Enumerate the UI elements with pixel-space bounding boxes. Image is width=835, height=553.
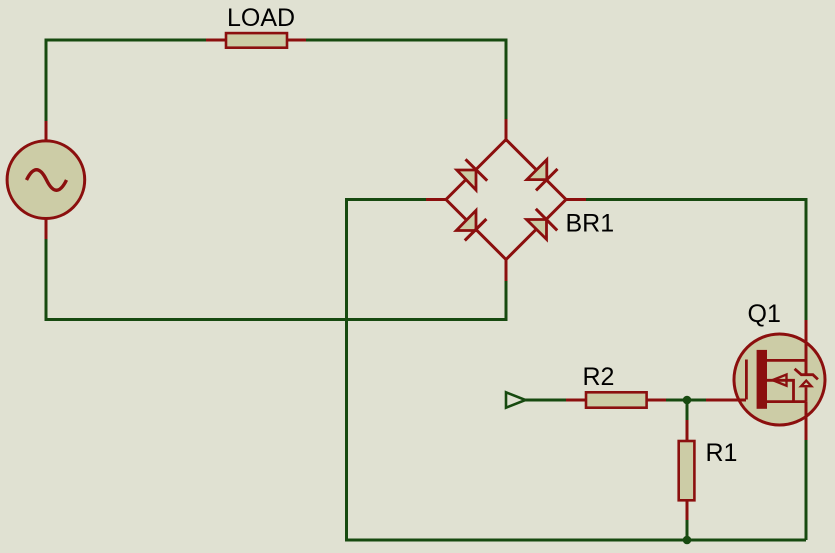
svg-text:R2: R2 xyxy=(583,363,615,391)
substrate line xyxy=(766,380,794,401)
drain line xyxy=(766,359,806,362)
wire: input arrow to R2 left pin xyxy=(525,399,566,402)
wire: bridge right to MOSFET drain xyxy=(586,200,806,321)
wire: R2 right to gate junction xyxy=(666,399,706,402)
gate electrode xyxy=(745,360,748,400)
diode D4 bottom-right (anode bottom, cathode right) xyxy=(527,220,547,240)
wire: bridge left to left loop down to bottom rail xyxy=(347,200,807,541)
source line xyxy=(766,400,806,403)
input terminal arrow xyxy=(506,392,526,407)
body diode anode lead xyxy=(805,387,808,401)
diode D3 bottom-left (anode left, cathode bottom) xyxy=(456,210,476,230)
wire: MOSFET source down to bottom rail xyxy=(805,440,808,540)
body diode cathode bar xyxy=(795,369,818,380)
resistor R2 xyxy=(566,392,666,407)
diode D2 top-right (anode top, cathode right) xyxy=(527,160,547,180)
AC source V1 xyxy=(7,121,85,239)
bridge rectifier BR1 xyxy=(426,119,586,281)
body diode triangle xyxy=(801,381,811,387)
wire: R1 bottom to bottom rail xyxy=(686,520,689,540)
substrate arrow xyxy=(773,375,787,386)
drain pin vertical xyxy=(805,320,808,375)
resistor R1 xyxy=(679,420,695,520)
source pin vertical xyxy=(805,402,808,440)
svg-text:LOAD: LOAD xyxy=(227,4,295,32)
channel bar xyxy=(757,350,767,409)
wire: top net from AC source to bridge top xyxy=(46,40,506,121)
gate pin xyxy=(706,399,746,402)
svg-text:R1: R1 xyxy=(706,439,738,467)
junction dot gate node xyxy=(683,396,692,405)
diode D1 top-left (anode left, cathode top) xyxy=(457,170,476,190)
resistor LOAD xyxy=(206,33,306,48)
diamond outline xyxy=(446,140,566,260)
junction dot bottom rail xyxy=(683,536,692,545)
bridge pins xyxy=(505,119,508,142)
wire: AC bottom to bridge bottom xyxy=(46,239,506,320)
svg-text:Q1: Q1 xyxy=(748,300,781,328)
wire: junction down to R1 top xyxy=(686,400,689,420)
svg-text:BR1: BR1 xyxy=(566,210,615,238)
MOSFET Q1 xyxy=(706,320,825,440)
